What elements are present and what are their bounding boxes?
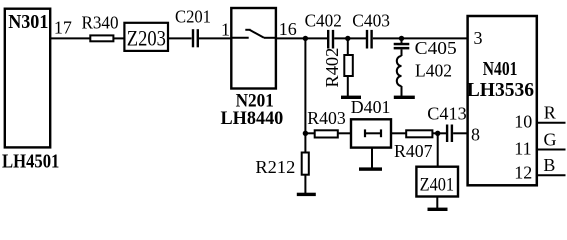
wire node to R403 (305, 132, 314, 134)
wire R407 to C413 (432, 132, 446, 134)
D401 inner symbol (365, 129, 381, 137)
node at pin16 junction (303, 36, 308, 41)
svg-text:R: R (544, 102, 556, 122)
wire R402 to ground (347, 76, 349, 96)
wire junction down to lower rail (304, 38, 306, 152)
svg-text:Z203: Z203 (127, 25, 166, 50)
svg-text:D401: D401 (351, 97, 391, 117)
resistor R340 (90, 35, 113, 41)
wire junction down to Z401 (437, 133, 439, 166)
capacitor C405 (401, 38, 403, 43)
svg-text:R212: R212 (255, 157, 295, 177)
svg-text:L402: L402 (415, 60, 452, 80)
R output wire (537, 122, 566, 124)
IC N401 box (468, 16, 537, 185)
ground under D401 (359, 167, 382, 170)
node R402 junction (345, 36, 350, 41)
svg-text:R402: R402 (322, 48, 342, 88)
wire down to R402 (347, 38, 349, 55)
delay line D401 box (351, 119, 391, 147)
wire D401 to ground (371, 148, 373, 168)
oscillator Z401 box (416, 167, 458, 197)
svg-text:C413: C413 (427, 104, 466, 124)
svg-text:LH8440: LH8440 (221, 108, 284, 129)
svg-text:3: 3 (474, 28, 483, 48)
resistor R402 (344, 55, 353, 76)
svg-text:R407: R407 (394, 141, 433, 161)
svg-text:C402: C402 (305, 11, 342, 31)
svg-text:10: 10 (514, 111, 532, 131)
wire C201 to N201 (199, 37, 231, 39)
B output wire (537, 174, 566, 176)
inductor L402 (401, 49, 403, 56)
wire C403 to N401 pin3 (373, 37, 468, 39)
wire L402 to ground (401, 86, 403, 96)
svg-text:LH3536: LH3536 (467, 79, 534, 101)
svg-text:R340: R340 (82, 12, 119, 32)
svg-text:N301: N301 (8, 11, 48, 33)
wire Z203 to C201 (168, 37, 192, 39)
svg-text:1: 1 (221, 20, 230, 40)
svg-text:C403: C403 (352, 11, 390, 31)
svg-text:G: G (544, 130, 557, 150)
svg-text:R403: R403 (307, 108, 346, 128)
wire Z401 to ground (436, 197, 438, 210)
ground under Z401 (428, 208, 448, 211)
capacitor C413 (446, 125, 453, 143)
svg-text:LH4501: LH4501 (2, 150, 59, 172)
IC N301 box (5, 9, 50, 148)
node Z401 junction (435, 131, 440, 136)
ground under L402 (394, 96, 415, 99)
resistor R212 (302, 153, 309, 175)
node C405 junction (399, 36, 404, 41)
svg-text:17: 17 (54, 18, 72, 38)
node lower junction (303, 131, 308, 136)
G output wire (537, 149, 566, 151)
ground under R402 (341, 96, 361, 99)
svg-text:C201: C201 (175, 7, 211, 27)
svg-text:Z401: Z401 (420, 175, 455, 196)
wire N201 pin16 to C402 (276, 37, 327, 39)
svg-text:11: 11 (514, 139, 531, 159)
resistor R407 (406, 130, 432, 137)
wire C402 to C403 (334, 37, 366, 39)
svg-text:16: 16 (279, 19, 297, 39)
svg-text:B: B (543, 155, 555, 175)
capacitor C201 (192, 29, 199, 47)
wire R403 to D401 (338, 132, 351, 134)
wire C413 to N401 pin8 (453, 132, 468, 134)
wire R340 to Z203 (113, 37, 124, 39)
switch inside N201 (231, 30, 276, 38)
resistor R403 (315, 130, 338, 137)
capacitor C402 (327, 30, 334, 49)
filter Z203 box (124, 23, 168, 51)
svg-text:N401: N401 (483, 58, 518, 80)
wire N301 pin17 to R340 (50, 37, 90, 39)
IC N201 box (231, 8, 276, 89)
svg-text:C405: C405 (415, 38, 457, 58)
svg-text:12: 12 (514, 163, 532, 183)
wire R212 to ground (304, 175, 306, 194)
wire D401 to R407 (391, 132, 406, 134)
ground under R212 (297, 193, 316, 196)
capacitor C403 (366, 30, 373, 49)
svg-text:8: 8 (471, 125, 480, 145)
